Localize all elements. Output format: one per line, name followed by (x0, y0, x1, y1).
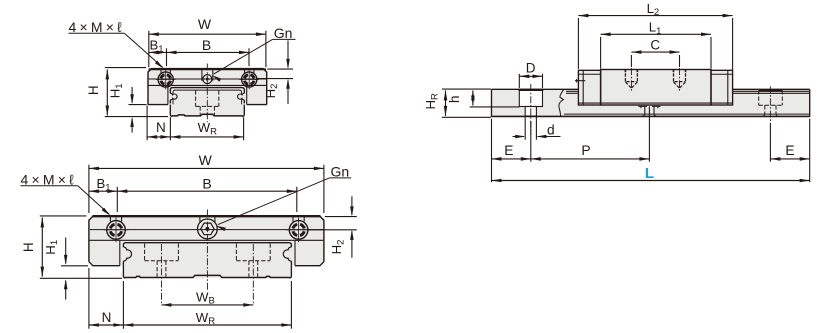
svg-text:B1: B1 (149, 38, 163, 55)
svg-text:4×M×ℓ: 4×M×ℓ (21, 171, 77, 187)
bottom view: hidden rail bolt holes (2x counterbore) (144, 244, 146, 261)
svg-text:H1: H1 (108, 83, 125, 98)
dim WR (top view) (243, 117, 245, 140)
side view: rail top groove lines (566, 90, 578, 92)
svg-text:E: E (785, 143, 794, 158)
side view: end-face grease port tick (575, 80, 585, 82)
bottom view: carriage inner arm edges (119, 241, 121, 266)
dim WB (bottom view) (162, 304, 254, 306)
svg-text:h: h (447, 95, 462, 103)
side view: rail bottom chamfer line (564, 113, 809, 115)
dim B (bottom view) (296, 187, 298, 212)
svg-text:B: B (202, 37, 211, 53)
svg-text:L: L (645, 165, 654, 182)
svg-text:WR: WR (198, 120, 217, 137)
top view: rail inner chamfer contour (173, 90, 242, 104)
side view: block end caps (578, 70, 600, 105)
side view: hole D center line (530, 84, 532, 134)
side view: tapped holes 4xMxl in block (624, 70, 626, 73)
top view: hidden rail bolt hole (counterbore) (195, 90, 197, 106)
dim L1 (600, 37, 602, 69)
dim C (630, 55, 632, 67)
side view: sectioned counterbore hole D (519, 89, 542, 106)
dim H2 (bottom view) (325, 216, 357, 218)
dim H1 (bottom view) (61, 265, 88, 267)
bottom view: rail bottom edge with notches and center recess (125, 275, 290, 277)
bottom view: silhouette fill (89, 216, 324, 278)
svg-text:L2: L2 (647, 1, 660, 18)
svg-text:N: N (156, 120, 166, 135)
top view: left mounting screw M hole (158, 72, 173, 87)
dim H2 (top view) (267, 68, 293, 70)
side view: rail body fill (492, 89, 810, 117)
bottom view: block top edge (thick) (92, 215, 321, 217)
top view: carriage mid line (149, 84, 267, 86)
dim L2 (577, 18, 579, 69)
bottom view: grease nipple Gn with hex (198, 219, 218, 239)
top view: carriage outline (148, 69, 267, 105)
svg-text:W: W (198, 16, 212, 32)
bottom view: carriage outline (89, 216, 324, 262)
dim N (top view) (146, 105, 148, 140)
dim B (top view) (248, 48, 250, 66)
svg-text:d: d (547, 122, 555, 137)
top view: block top edge (thick) (149, 68, 267, 70)
bottom view: vertical center line (206, 210, 208, 291)
dim P (531, 158, 650, 160)
svg-text:Gn: Gn (331, 164, 350, 180)
svg-text:HR: HR (423, 93, 440, 110)
svg-text:Gn: Gn (274, 25, 293, 41)
svg-text:E: E (504, 143, 513, 158)
svg-text:H2: H2 (329, 240, 346, 255)
dim W (bottom view) (88, 165, 90, 213)
svg-text:C: C (650, 37, 660, 52)
dim D (518, 74, 520, 88)
top view: grease nipple Gn (203, 75, 212, 84)
bottom view: line through screw centers (90, 229, 323, 231)
svg-text:H: H (21, 242, 36, 252)
svg-text:D: D (526, 60, 536, 75)
svg-text:H: H (86, 85, 101, 95)
svg-text:W: W (199, 152, 213, 168)
side view: block fill (578, 70, 732, 105)
svg-text:B: B (202, 175, 211, 191)
side view: block body outline (601, 70, 711, 106)
dim H (top view) (105, 67, 146, 69)
top view: rail outline with side grooves (170, 88, 244, 104)
bottom view: left mounting screw M hole (107, 221, 126, 240)
side view: rail hole under block (at P) (638, 105, 647, 107)
svg-text:H1: H1 (43, 240, 60, 255)
top view: carriage/rail silhouette fill (148, 69, 267, 117)
side view: break line (559, 89, 564, 117)
svg-text:L1: L1 (649, 20, 662, 37)
dim E (left) (491, 119, 493, 183)
dim B1 (top view) (166, 48, 168, 66)
side view: block bottom seal line (578, 102, 732, 104)
bottom view: rail outline with side grooves (123, 243, 291, 266)
dim E (right) (809, 119, 811, 183)
dim N (bottom view) (88, 268, 90, 329)
bottom view: carriage mid line (89, 239, 323, 241)
svg-text:4×M×ℓ: 4×M×ℓ (69, 19, 125, 35)
dim WR (bottom view) (290, 281, 292, 329)
dim W (top view) (148, 31, 150, 67)
dim B1 (bottom view) (116, 187, 118, 212)
side view: hidden right rail hole (759, 89, 783, 91)
svg-text:WB: WB (196, 289, 215, 306)
top view: line through screw centers (149, 78, 267, 80)
dim H1 (top view) (129, 104, 147, 106)
dim d (524, 118, 526, 139)
dim H (bottom view) (40, 215, 87, 217)
svg-text:P: P (581, 143, 590, 158)
svg-text:B1: B1 (96, 176, 110, 193)
dim L (blue) (492, 180, 810, 182)
top view: rail lower sides (170, 105, 172, 117)
bottom view: rail lower sides (123, 266, 125, 278)
bottom view: right mounting screw M hole (289, 221, 308, 240)
side view: rail outline (491, 89, 493, 117)
top view: carriage inner arm edges (167, 86, 169, 105)
svg-text:N: N (102, 310, 112, 325)
top view: right mounting screw M hole (242, 72, 257, 87)
top view: vertical center line (206, 64, 208, 123)
top view: rail bottom edge with relief notch and center recess (172, 114, 243, 116)
svg-text:WR: WR (196, 310, 215, 327)
dim HR (442, 88, 491, 90)
dim h (470, 106, 520, 108)
